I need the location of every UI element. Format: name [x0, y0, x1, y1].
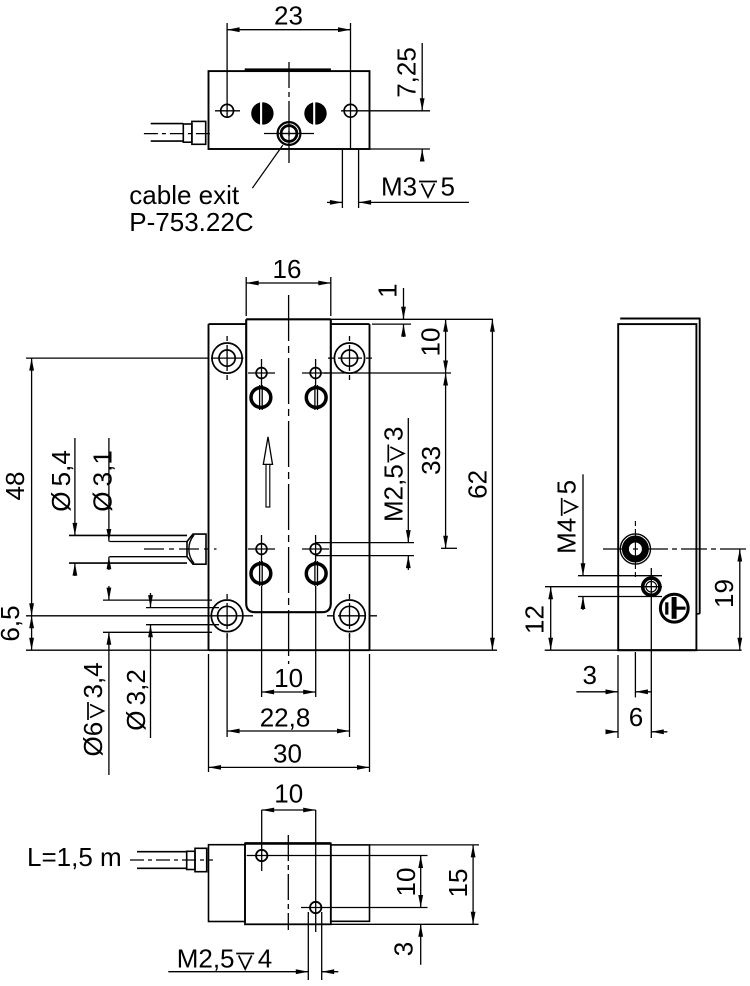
- svg-text:L=1,5 m: L=1,5 m: [27, 842, 122, 872]
- svg-text:1: 1: [373, 283, 403, 297]
- M3 thread extension lines: [341, 150, 343, 208]
- dimension 10 (bottom view right): [420, 856, 422, 908]
- dimension 1: [403, 288, 405, 319]
- body edge extension down: [617, 655, 619, 738]
- svg-text:3: 3: [582, 660, 596, 690]
- bottom row centerline (48 / 6,5): [26, 615, 253, 617]
- platform hole row1 left: [256, 368, 267, 379]
- svg-text:7,25: 7,25: [391, 47, 421, 98]
- actuator axis dashes: [144, 548, 217, 550]
- bottom view vertical centerline: [287, 835, 289, 930]
- dimension 6,5: [31, 616, 33, 650]
- dimension 30 extension lines: [208, 654, 210, 772]
- row1 slotted screw left: [251, 388, 271, 408]
- top view vertical centerline: [288, 62, 290, 163]
- dimension 22,8 extension lines: [226, 634, 228, 737]
- M4 actuator axis centerline: [603, 548, 748, 550]
- svg-text:15: 15: [443, 869, 473, 898]
- dimension 10 (upper right): [445, 319, 447, 373]
- svg-text:cable exit: cable exit: [129, 180, 240, 210]
- front view central centerline: [288, 295, 290, 664]
- svg-text:M4: M4: [552, 518, 582, 554]
- row1 slotted screw right: [306, 388, 326, 408]
- svg-text:19: 19: [709, 579, 739, 608]
- svg-text:Ø 3,1: Ø 3,1: [87, 450, 117, 512]
- top view connector body: [192, 121, 206, 144]
- svg-text:48: 48: [0, 472, 30, 501]
- svg-text:Ø 5,4: Ø 5,4: [46, 450, 76, 512]
- M2,5 depth 3 dimension: [407, 418, 409, 543]
- dimension 22,8: [227, 730, 349, 732]
- dimension 19: [739, 549, 741, 650]
- top row extension line (48): [26, 357, 209, 359]
- svg-text:5: 5: [441, 172, 455, 202]
- dimension 3 (bottom view): [420, 924, 422, 965]
- screw hole top-right: [334, 343, 364, 373]
- svg-text:22,8: 22,8: [260, 703, 311, 733]
- dimension 33: [445, 373, 447, 548]
- svg-text:33: 33: [416, 446, 446, 475]
- svg-text:62: 62: [463, 470, 493, 499]
- top view connector ferrule: [183, 124, 192, 142]
- svg-text:M2,5: M2,5: [177, 944, 235, 974]
- bottom view hole 1: [256, 850, 267, 861]
- svg-text:3: 3: [378, 427, 408, 441]
- svg-text:P-753.22C: P-753.22C: [129, 207, 253, 237]
- bottom view connector ferrule: [187, 851, 195, 869]
- row1 extension line (10/33): [324, 372, 451, 374]
- svg-text:10: 10: [416, 328, 446, 357]
- M4 depth 5 dimension: [582, 474, 584, 575]
- M3 depth 5 dimension line: [327, 201, 342, 203]
- top view left M3 hole: [221, 104, 234, 117]
- svg-text:3,4: 3,4: [78, 662, 108, 698]
- top view cable lines: [151, 123, 184, 125]
- body bottom extension for 7,25: [370, 148, 431, 150]
- bottom view cable lines: [137, 851, 187, 853]
- screw hole top-left: [212, 343, 242, 373]
- M2,5 depth 4 dimension line: [168, 971, 308, 973]
- row2 extension for 33: [441, 547, 457, 549]
- bottom view middle block (platform): [245, 843, 331, 924]
- cable exit screw horizontal centerline: [264, 133, 314, 135]
- side view platform plate: [699, 319, 701, 614]
- svg-text:30: 30: [273, 739, 302, 769]
- dimension 10 (bottom view top): [262, 809, 316, 811]
- dimension 6 (side view): [606, 731, 618, 733]
- svg-text:23: 23: [274, 1, 303, 31]
- dimension 3 (side view): [576, 691, 618, 693]
- dimension 48: [31, 358, 33, 616]
- platform top edge: [246, 318, 331, 320]
- front view body bottom + extensions: [26, 649, 497, 651]
- M2,5 extension lines (bottom): [307, 912, 309, 980]
- cable exit screw: [278, 122, 301, 145]
- dimension diameter 5,4: [74, 438, 76, 535]
- svg-text:M3: M3: [381, 172, 417, 202]
- svg-text:12: 12: [520, 605, 550, 634]
- platform hole row2 left: [256, 544, 267, 555]
- dimension 30: [209, 766, 370, 768]
- platform top extension line: [331, 318, 493, 320]
- dimension 62: [491, 319, 493, 650]
- svg-text:10: 10: [391, 868, 421, 897]
- top view right slotted screw: [305, 103, 326, 124]
- top view body: [209, 71, 370, 149]
- top view right M3 hole: [344, 104, 357, 117]
- dimension 12: [550, 587, 552, 651]
- actuator cap: [187, 534, 206, 564]
- actuator barrel inner: [109, 541, 187, 543]
- dimension 23 line: [227, 29, 350, 31]
- cable exit leader line: [252, 145, 282, 188]
- bottom view connector body: [195, 848, 207, 871]
- dimension diameter 3,1: [108, 438, 110, 542]
- side view slotted adjustment screw: [660, 594, 688, 622]
- front view body top edges: [209, 323, 247, 325]
- svg-text:5: 5: [552, 480, 582, 494]
- dimension 15: [472, 845, 474, 924]
- M4 axis extension down: [634, 652, 636, 697]
- dimension 16 extension lines: [245, 277, 247, 316]
- diameter 6 depth 3,4 dimension: [108, 586, 110, 600]
- dimension 15 extension lines: [370, 844, 480, 846]
- bottom view left block: [209, 845, 246, 922]
- top view lip: [245, 69, 330, 71]
- svg-text:16: 16: [273, 254, 302, 284]
- svg-text:3: 3: [389, 942, 419, 956]
- svg-text:Ø6: Ø6: [78, 722, 108, 757]
- svg-text:Ø 3,2: Ø 3,2: [121, 669, 151, 731]
- diameter 3,2 extension lines: [146, 607, 219, 609]
- screw hole bottom-left: [211, 600, 243, 632]
- dimension 7,25 line: [421, 43, 423, 111]
- actuator barrel outer: [69, 534, 187, 536]
- 7,25 extension line (hole axis): [341, 110, 430, 112]
- bottom view hole 2: [310, 902, 321, 913]
- row2 slotted screw left: [251, 564, 271, 584]
- set screw vertical extension: [650, 568, 652, 738]
- M2,5 depth 4 label: [177, 944, 272, 974]
- M4 thread extension lines: [578, 575, 662, 577]
- side view bottom extension line: [545, 649, 742, 651]
- bottom view right block: [331, 845, 370, 921]
- dimension 10 (below front view): [262, 691, 316, 693]
- screw hole bottom-right: [334, 600, 366, 632]
- dimension 23 extension lines: [226, 23, 228, 118]
- side view body: [618, 324, 696, 650]
- platform hole row1 right: [310, 368, 321, 379]
- dimension 16 line: [246, 282, 331, 284]
- side view platform top surface: [620, 318, 700, 320]
- diameter 3,2 dimension: [150, 593, 152, 608]
- row2 slotted screw right: [306, 564, 326, 584]
- svg-text:M2,5: M2,5: [378, 464, 408, 522]
- svg-text:6,5: 6,5: [0, 605, 25, 641]
- counterbore diameter 6 extension lines: [103, 599, 212, 601]
- svg-text:10: 10: [274, 663, 303, 693]
- svg-text:6: 6: [629, 702, 643, 732]
- column extension lines to bottom 10 dim: [261, 586, 263, 697]
- side view small M4 set screw: [643, 578, 660, 595]
- moving platform outline: [246, 319, 331, 612]
- set screw horizontal centerline: [545, 586, 662, 588]
- M3 depth 5 label: [381, 172, 455, 202]
- top view left slotted screw: [252, 103, 273, 124]
- svg-text:4: 4: [258, 944, 272, 974]
- platform hole row2 right: [310, 544, 321, 555]
- side view M4 actuator screw: [620, 534, 650, 564]
- front view body left edge: [208, 324, 210, 650]
- motion direction arrow: [266, 464, 270, 507]
- svg-text:10: 10: [274, 779, 303, 809]
- M2,5 thread extension lines: [316, 542, 414, 544]
- front view body right edge: [369, 324, 371, 650]
